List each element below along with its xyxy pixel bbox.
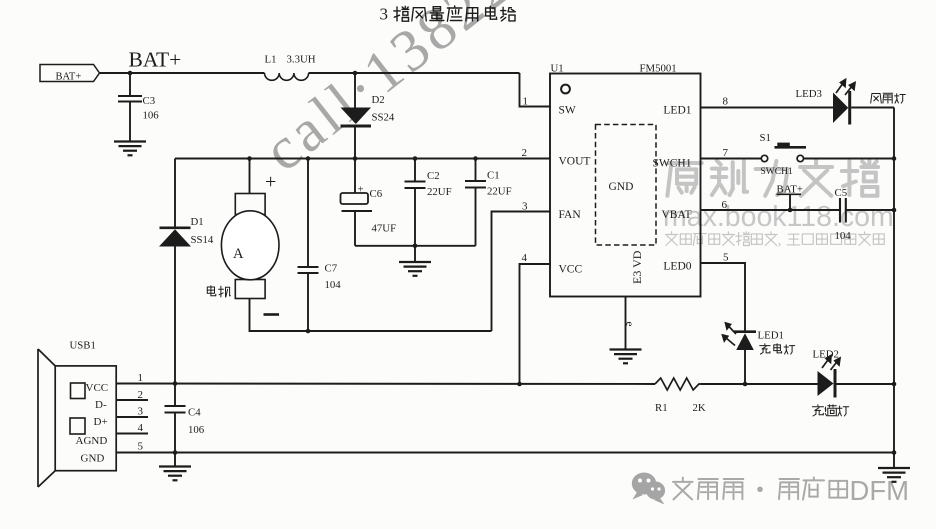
svg-text:4: 4 [522, 252, 528, 264]
switch S1 [760, 132, 807, 162]
capacitor C7 [298, 159, 342, 332]
svg-text:4: 4 [138, 422, 144, 434]
diode D1 [159, 159, 214, 384]
capacitor C2 [405, 159, 452, 246]
svg-text:SS24: SS24 [372, 112, 395, 124]
svg-text:C3: C3 [143, 95, 156, 107]
svg-text:VCC: VCC [559, 264, 583, 276]
wire C5 to right rail [846, 209, 894, 211]
svg-text:C7: C7 [325, 263, 338, 275]
wire VCC rail [116, 383, 655, 386]
wire USB AGND stub [116, 433, 148, 435]
wire SWCH1 pin to S1 [701, 158, 762, 160]
pin number 3 [522, 201, 528, 213]
svg-text:22UF: 22UF [487, 186, 512, 198]
watermark wechat account text [673, 475, 909, 506]
svg-text:104: 104 [835, 230, 852, 242]
pin number 1 [523, 96, 529, 108]
svg-text:LED1: LED1 [663, 105, 691, 117]
pin number 7 [723, 147, 729, 159]
diode D2 [341, 73, 395, 159]
svg-text:C6: C6 [370, 188, 383, 200]
svg-text:D2: D2 [372, 94, 385, 106]
svg-text:USB1: USB1 [70, 340, 96, 352]
U1 pin name LED0 [663, 261, 691, 273]
motor M [221, 159, 279, 299]
svg-text:104: 104 [325, 279, 342, 291]
capacitor C3 [118, 73, 159, 142]
svg-text:E3 VD: E3 VD [630, 250, 644, 284]
motor M minus sign [264, 313, 280, 316]
inductor L1 [265, 54, 316, 81]
USB1 pin number 2 [138, 389, 144, 401]
svg-text:VCC: VCC [86, 382, 109, 394]
svg-text:5: 5 [723, 252, 729, 264]
svg-text:D1: D1 [191, 216, 204, 228]
led LED2 chinese label [812, 405, 849, 416]
svg-text:VOUT: VOUT [559, 156, 591, 168]
wire right ground drop [893, 453, 895, 469]
junction motor-bottom/C7 [306, 329, 311, 334]
U1 pin name VOUT [559, 156, 591, 168]
net label BAT+ main [129, 48, 182, 72]
svg-text:D-: D- [95, 399, 107, 411]
svg-text:GND: GND [609, 181, 634, 193]
U1 pin name SWCH1 [653, 158, 692, 170]
svg-text:L1: L1 [265, 54, 277, 66]
U1 pin name VBAT [661, 209, 691, 221]
wire FAN pin [492, 212, 551, 332]
wire LED3 to right rail [851, 107, 894, 109]
svg-text:106: 106 [188, 424, 205, 436]
op-amp U1 FM5001 body [550, 63, 701, 297]
USB1 pin number 5 [138, 441, 144, 453]
svg-text:C4: C4 [188, 407, 201, 419]
wire VBAT pin [701, 209, 841, 211]
U1 internal GND block [596, 125, 657, 246]
watermark diagonal phone text [251, 0, 525, 184]
svg-text:SS14: SS14 [191, 234, 214, 246]
ground USB [159, 467, 191, 481]
svg-text:LED3: LED3 [796, 88, 822, 100]
junction VOUT/C1 [473, 156, 478, 161]
ground capacitors [399, 262, 431, 276]
svg-text:D+: D+ [94, 416, 108, 428]
junction VOUT/C6 [353, 156, 358, 161]
wire LED1 pin to LED3 [701, 107, 834, 109]
USB1 pin label D+ [94, 416, 108, 428]
ground right [878, 468, 910, 482]
svg-text:6: 6 [722, 199, 728, 211]
wire R1 to LED2 [701, 383, 818, 385]
wire BAT+ rail left [100, 72, 265, 74]
svg-text:7: 7 [723, 147, 729, 159]
U1 pin name FAN [559, 209, 582, 221]
watermark preview notice [666, 232, 885, 249]
junction capbus/gnd [413, 244, 418, 249]
wire LED0 pin [701, 263, 746, 331]
motor M plus sign [265, 171, 276, 193]
junction VOUT/motor [247, 156, 252, 161]
ground U1 [610, 350, 642, 364]
watermark wechat logo [632, 473, 665, 505]
junction VCCrail/C4 [173, 381, 178, 386]
junction right/GNDrail [892, 450, 897, 455]
USB1 pin label AGND [76, 435, 108, 447]
U1 pin name SW [559, 105, 576, 117]
switch S1 net label SWCH1 [761, 167, 793, 177]
svg-text:LED2: LED2 [813, 349, 839, 361]
led LED3 [796, 80, 856, 125]
svg-text:LED0: LED0 [663, 261, 691, 273]
svg-text:SWCH1: SWCH1 [761, 167, 793, 177]
svg-text:8: 8 [723, 96, 729, 108]
pin number 8 [723, 96, 729, 108]
wire capbus ground drop [414, 246, 416, 262]
svg-text:BAT+: BAT+ [56, 72, 82, 83]
svg-text:1: 1 [138, 372, 144, 384]
U1 ground pin marking e [624, 322, 636, 327]
wire BAT+ rail right [309, 72, 520, 74]
wire capacitor ground bus [355, 245, 476, 247]
wire VCC pin [520, 264, 551, 384]
pin number 6 [722, 199, 728, 211]
junction BAT+/C3 [128, 71, 133, 76]
title text 3-speed fan application circuit [380, 5, 516, 24]
connector BAT+ flag [40, 65, 100, 83]
wire LED2 to right rail [837, 383, 895, 385]
junction VOUT/C2 [413, 156, 418, 161]
svg-text:C1: C1 [487, 170, 500, 182]
svg-text:S1: S1 [760, 132, 771, 144]
led LED1 chinese label [760, 344, 795, 354]
wire VOUT rail [175, 158, 550, 160]
USB1 pin label D- [95, 399, 107, 411]
connector USB1 [38, 340, 116, 488]
svg-text:AGND: AGND [76, 435, 108, 447]
junction GNDrail/C4 [173, 450, 178, 455]
ground C3 [114, 142, 146, 156]
svg-text:e: e [624, 322, 636, 327]
svg-text:106: 106 [143, 110, 160, 122]
U1 pin name VCC [559, 264, 583, 276]
wire USB D- stub [116, 399, 148, 401]
svg-text:3: 3 [380, 5, 389, 24]
wire to SW pin [520, 73, 551, 107]
svg-text:C5: C5 [835, 187, 848, 199]
USB1 pin number 3 [138, 406, 144, 418]
svg-text:SW: SW [559, 105, 576, 117]
pin number 5 [723, 252, 729, 264]
svg-text:+: + [265, 171, 276, 193]
svg-text:GND: GND [81, 453, 105, 465]
led LED3 chinese label [871, 93, 906, 103]
junction right/VBAT [892, 208, 897, 213]
U1 pin1 indicator circle [561, 85, 570, 94]
USB1 pin number 4 [138, 422, 144, 434]
svg-text:,: , [778, 232, 782, 249]
svg-text:FM5001: FM5001 [640, 63, 677, 75]
led LED1 [723, 323, 784, 384]
svg-text:DFM: DFM [850, 475, 910, 506]
svg-text:2K: 2K [693, 402, 706, 414]
svg-text:R1: R1 [655, 402, 668, 414]
pin number 4 [522, 252, 528, 264]
capacitor C5 [835, 187, 852, 242]
junction VCCrail/pin4 [517, 382, 522, 387]
svg-text:3: 3 [522, 201, 528, 213]
watermark site url [663, 201, 894, 233]
USB1 pin label GND [81, 453, 105, 465]
U1 rotated marking E3 VD [630, 250, 644, 284]
wire right vertical rail [893, 108, 895, 453]
svg-text:3.3UH: 3.3UH [287, 54, 316, 66]
junction right/LED2 [892, 382, 897, 387]
junction LED1/VCC rail [743, 382, 748, 387]
wire GND rail [116, 452, 894, 454]
svg-text:FAN: FAN [559, 209, 582, 221]
USB1 pin label VCC [86, 382, 109, 394]
wire motor bottom [250, 299, 492, 332]
svg-text:SWCH1: SWCH1 [653, 158, 692, 170]
resistor R1 [655, 378, 706, 414]
svg-text:BAT+: BAT+ [129, 48, 182, 72]
capacitor C1 [465, 159, 512, 246]
watermark doc title [667, 160, 878, 196]
svg-text:47UF: 47UF [372, 223, 397, 235]
junction right/SWCH1 [892, 156, 897, 161]
junction BAT+/D2 [353, 71, 358, 76]
svg-text:U1: U1 [551, 63, 564, 75]
svg-text:22UF: 22UF [427, 186, 452, 198]
wire S1 to right rail [804, 158, 895, 160]
svg-text:5: 5 [138, 441, 144, 453]
svg-text:+: + [358, 184, 364, 196]
junction VOUT/C7 [306, 156, 311, 161]
svg-text:C2: C2 [427, 170, 440, 182]
capacitor C6 [341, 159, 397, 246]
junction BAT+flag/VBAT wire [788, 208, 793, 213]
wire C4 ground drop [174, 453, 176, 467]
svg-text:1: 1 [523, 96, 529, 108]
svg-text:LED1: LED1 [758, 330, 784, 342]
net label BAT+ flag at VBAT [777, 184, 804, 211]
svg-text:3: 3 [138, 406, 144, 418]
svg-text:2: 2 [522, 147, 528, 159]
svg-text:A: A [233, 246, 244, 262]
motor label dianji [207, 286, 230, 297]
led LED2 [813, 349, 841, 398]
svg-text:max.book118.com: max.book118.com [663, 201, 894, 233]
wire USB D+ stub [116, 416, 148, 418]
svg-text:VBAT: VBAT [661, 209, 691, 221]
wire U1 ground [625, 297, 627, 350]
USB1 pin number 1 [138, 372, 144, 384]
capacitor C4 [165, 384, 205, 453]
U1 pin name LED1 [663, 105, 691, 117]
pin number 2 [522, 147, 528, 159]
